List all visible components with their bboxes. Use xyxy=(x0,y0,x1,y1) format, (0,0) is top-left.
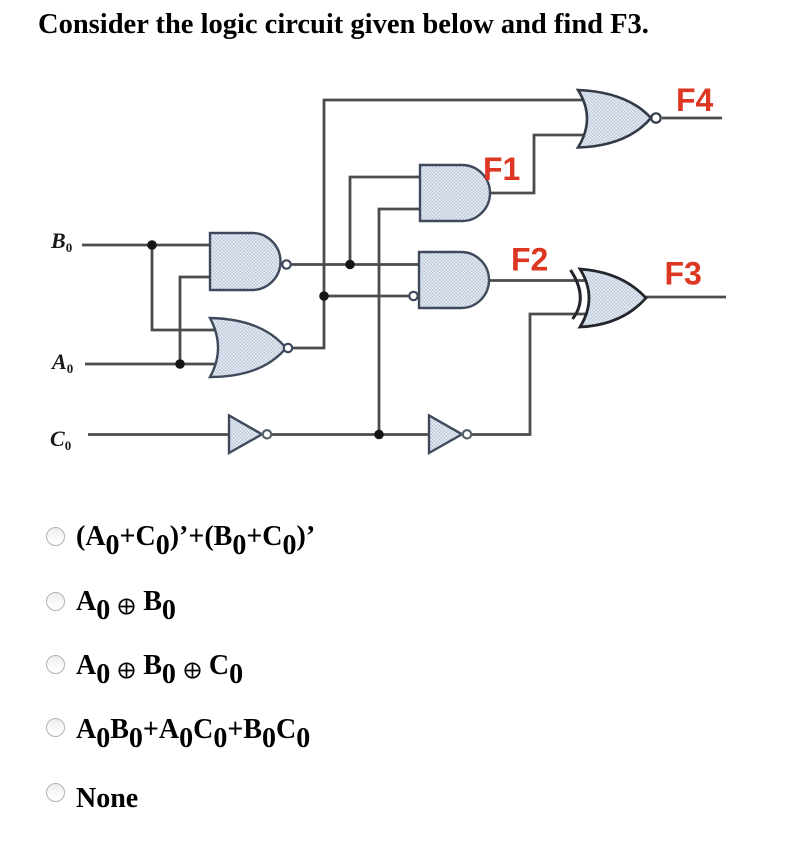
inverter V2 xyxy=(429,416,471,454)
wire NAND output to F2 top input xyxy=(291,263,425,266)
svg-text:F1: F1 xyxy=(483,151,520,187)
svg-text:B0: B0 xyxy=(50,228,72,255)
wire C0 input xyxy=(88,433,232,436)
wire C0 branch up to F1 bottom input xyxy=(379,209,425,435)
wire F1 output to F4 bottom input xyxy=(490,135,595,193)
wire NOR output up to F4 top input xyxy=(293,100,596,348)
option 2 text xyxy=(76,588,176,616)
wire B0 input xyxy=(82,244,212,247)
junction A0 xyxy=(175,359,185,369)
and gate F2 with inverted input xyxy=(409,252,489,308)
nor gate U2 xyxy=(210,318,292,377)
svg-text:F2: F2 xyxy=(511,242,548,278)
junction NAND output xyxy=(345,260,355,270)
wire B0 branch down to NOR top input xyxy=(152,245,225,330)
wire inverter1 to inverter2 xyxy=(272,433,432,436)
wire branch to F2 inverted input xyxy=(324,295,409,298)
svg-text:F3: F3 xyxy=(665,256,702,292)
wire A0 branch up to NAND bottom input xyxy=(180,277,212,364)
svg-text:F4: F4 xyxy=(676,82,714,118)
wire F2 output to XOR top input xyxy=(489,279,595,282)
option 1 text xyxy=(76,523,315,551)
wire XOR output F3 xyxy=(646,296,726,299)
wire F4 output xyxy=(662,117,722,120)
option 4 radio xyxy=(46,718,65,737)
option 3 radio xyxy=(46,655,65,674)
option 5 radio xyxy=(46,783,65,802)
junction C0 line xyxy=(374,430,384,440)
option 5 text xyxy=(76,785,138,813)
title xyxy=(38,9,649,41)
option 1 radio xyxy=(46,527,65,546)
wire A0 input xyxy=(85,363,225,366)
nor gate F4 xyxy=(578,90,661,148)
option 4 text xyxy=(76,716,310,744)
wire branch up to F1 top input xyxy=(350,177,425,265)
xor gate F3 xyxy=(571,269,647,327)
inverter V1 xyxy=(229,416,271,454)
svg-text:A0: A0 xyxy=(50,349,73,376)
option 3 text xyxy=(76,652,243,680)
and gate F1 xyxy=(420,165,490,221)
svg-text:C0: C0 xyxy=(50,426,71,453)
nand gate U1 xyxy=(210,233,291,290)
junction NOR output riser xyxy=(319,291,329,301)
junction B0 xyxy=(147,240,157,250)
wire inverter2 output up to XOR bottom input xyxy=(472,314,595,435)
option 2 radio xyxy=(46,592,65,611)
